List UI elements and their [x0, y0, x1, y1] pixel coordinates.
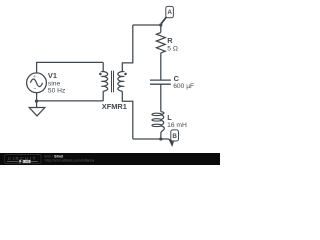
svg-text:A: A	[167, 9, 172, 16]
inductor L	[152, 84, 164, 139]
svg-text:L: L	[167, 113, 172, 122]
ground	[29, 101, 45, 116]
transformer XFMR1 primary winding	[102, 62, 108, 101]
svg-text:C: C	[174, 74, 180, 83]
svg-text:B: B	[172, 133, 177, 140]
resistor R	[156, 25, 165, 80]
svg-text:5 Ω: 5 Ω	[167, 45, 178, 52]
junction dot at ground node	[35, 100, 38, 103]
phase dot primary	[99, 73, 102, 76]
svg-text:50 Hz: 50 Hz	[48, 87, 66, 94]
wire top-right: XFMR1 secondary to node A	[133, 24, 161, 26]
svg-text:R: R	[167, 36, 173, 45]
svg-text:sine: sine	[48, 80, 61, 87]
svg-text:http://circuitlab.com/c/8a2w: http://circuitlab.com/c/8a2w	[45, 159, 95, 163]
banner	[0, 153, 220, 165]
capacitor C	[150, 80, 171, 84]
transformer XFMR1 core	[112, 71, 114, 93]
svg-text:16 mH: 16 mH	[167, 122, 187, 129]
svg-text:600 µF: 600 µF	[173, 83, 194, 90]
node flag B	[168, 130, 179, 147]
node flag A	[161, 6, 173, 23]
svg-text:V1: V1	[48, 71, 57, 80]
voltage source V1	[27, 73, 47, 101]
wire top-left: V1 to XFMR1 primary	[37, 62, 104, 73]
transformer XFMR1 secondary winding	[118, 25, 133, 139]
wire bottom-right: XFMR1 secondary to node B	[133, 138, 169, 140]
phase dot secondary	[124, 73, 127, 76]
wire bottom-left: ground node to XFMR1 primary	[37, 100, 104, 102]
junction dot node B	[159, 137, 162, 140]
junction dot node A	[159, 23, 162, 26]
svg-text:LAB: LAB	[23, 160, 30, 164]
svg-text:XFMR1: XFMR1	[102, 102, 127, 111]
